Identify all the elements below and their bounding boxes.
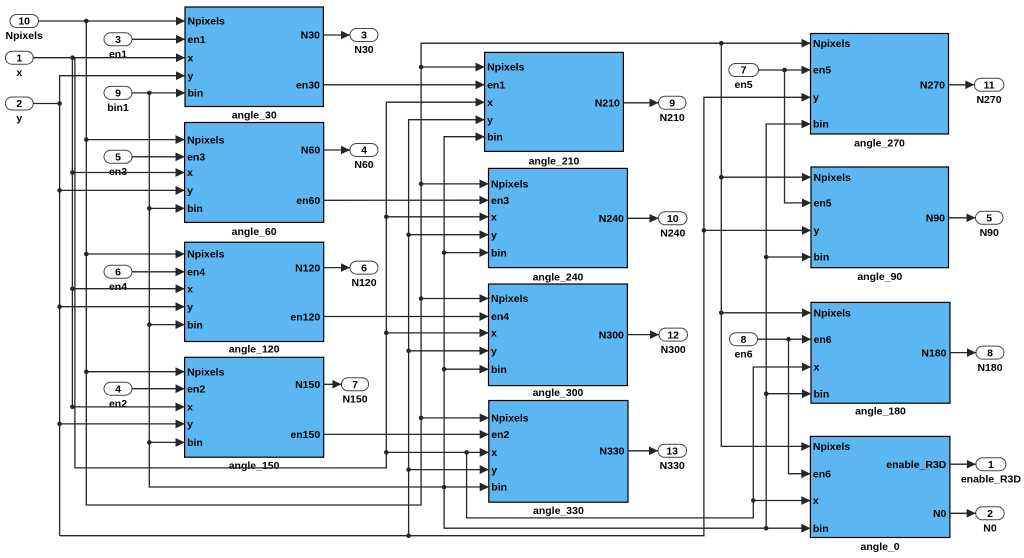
svg-text:bin: bin (187, 319, 203, 331)
svg-text:y: y (187, 301, 193, 313)
wire y branch angle_90 (702, 226, 811, 235)
svg-text:1: 1 (988, 459, 994, 471)
wire bin vertical middle column (442, 132, 485, 489)
wire N60 out (324, 146, 350, 155)
wire bin branch angle_60 (147, 204, 185, 213)
svg-text:N270: N270 (920, 80, 945, 92)
svg-text:N0: N0 (933, 508, 947, 520)
wire y branch angle_330 (406, 465, 488, 474)
wire y branch angle_120 (57, 302, 184, 311)
subsystem block angle_300 (480, 284, 628, 399)
wire Npixels: port 10 to angle_30 and vertical bus (39, 17, 811, 505)
svg-text:9: 9 (115, 88, 121, 100)
wire bin: port 9 to angle_30 and vertical (132, 89, 489, 492)
subsystem block angle_90 (802, 167, 949, 283)
wire enable_R3D out (950, 460, 976, 469)
svg-text:Npixels: Npixels (491, 179, 529, 191)
svg-text:4: 4 (361, 145, 367, 157)
svg-text:x: x (187, 167, 193, 179)
svg-text:angle_210: angle_210 (529, 156, 580, 168)
svg-text:enable_R3D: enable_R3D (886, 459, 947, 471)
svg-text:N150: N150 (295, 379, 320, 391)
svg-text:3: 3 (115, 34, 121, 46)
wire x: port 1 to angle_30 and verticals (33, 53, 484, 468)
outport 8 N180 (976, 346, 1004, 374)
svg-text:x: x (188, 52, 194, 64)
svg-text:x: x (187, 402, 193, 414)
svg-text:N330: N330 (599, 446, 624, 458)
svg-text:angle_120: angle_120 (229, 344, 280, 356)
wire bin right bus to angle_0 (444, 120, 810, 533)
svg-text:bin: bin (491, 482, 507, 494)
wire Npixels branch angle_60 (84, 135, 185, 144)
svg-text:N240: N240 (599, 213, 624, 225)
svg-text:N300: N300 (599, 329, 624, 341)
inport 6 en4 (104, 265, 132, 293)
wire N180 out (950, 348, 976, 357)
svg-text:en5: en5 (813, 65, 831, 77)
svg-text:bin: bin (813, 523, 829, 535)
wire x branch angle_120 (70, 284, 185, 293)
svg-text:en2: en2 (109, 398, 127, 410)
inport 2 y (5, 97, 33, 125)
outport 1 enable_R3D (961, 458, 1022, 486)
svg-text:angle_330: angle_330 (533, 505, 584, 517)
svg-text:en6: en6 (734, 348, 752, 360)
wire Npixels branch angle_330 (419, 414, 489, 423)
svg-text:N330: N330 (660, 460, 685, 472)
wire en150 to angle_330 en2 (324, 430, 489, 439)
wire N150 out (324, 380, 342, 389)
svg-text:en4: en4 (109, 281, 127, 293)
outport 2 N0 (976, 507, 1005, 535)
svg-text:Npixels: Npixels (188, 16, 226, 28)
wire en6: port 8 to angle_180 and angle_0 (758, 335, 812, 478)
svg-text:10: 10 (667, 213, 679, 225)
svg-text:8: 8 (741, 334, 747, 346)
svg-text:en2: en2 (187, 383, 205, 395)
svg-text:8: 8 (987, 347, 993, 359)
svg-text:4: 4 (115, 383, 121, 395)
svg-text:6: 6 (361, 262, 367, 274)
outport 5 N90 (976, 211, 1004, 239)
svg-text:12: 12 (667, 329, 679, 341)
subsystem block angle_270 (802, 34, 949, 150)
wire Npixels branch angle_210 (419, 63, 485, 72)
svg-text:5: 5 (986, 213, 992, 225)
inport 4 en2 (104, 382, 132, 410)
outport 12 N300 (659, 328, 688, 356)
wire en5: port 7 to angle_270 and angle_90 (758, 66, 811, 208)
svg-text:enable_R3D: enable_R3D (961, 473, 1022, 485)
wire Npixels branch angle_240 (419, 180, 489, 189)
wire x branch angle_0 (751, 496, 810, 505)
wire en1: port 3 to angle_30 (132, 35, 185, 44)
wire Npixels branch angle_120 (84, 250, 185, 259)
svg-text:Npixels: Npixels (814, 172, 852, 184)
wire x branch angle_60 (70, 168, 185, 177)
svg-text:x: x (814, 362, 820, 374)
wire y branch angle_240 (406, 230, 488, 239)
svg-text:bin: bin (188, 88, 204, 100)
svg-text:y: y (814, 225, 820, 237)
wire en4: port 6 to angle_120 (132, 268, 185, 277)
outport 11 N270 (974, 78, 1004, 106)
wire x branch angle_240 (384, 213, 489, 222)
svg-text:N150: N150 (342, 394, 367, 406)
wire N330 out (628, 447, 658, 456)
svg-text:N240: N240 (660, 228, 685, 240)
inport 1 x (5, 51, 33, 79)
svg-text:y: y (187, 419, 193, 431)
wire Npixels right vertical to angle_0 (719, 41, 810, 451)
svg-text:1: 1 (16, 52, 22, 64)
svg-text:y: y (188, 70, 194, 82)
wire N270 out (949, 81, 975, 90)
svg-text:9: 9 (669, 98, 675, 110)
svg-text:bin: bin (814, 388, 830, 400)
svg-text:x: x (491, 447, 497, 459)
svg-text:en1: en1 (487, 80, 505, 92)
wire N120 out (324, 263, 350, 272)
outport 7 N150 (341, 378, 368, 406)
svg-text:N60: N60 (354, 159, 373, 171)
svg-text:en6: en6 (814, 334, 832, 346)
wire Npixels branch angle_180 (719, 309, 811, 318)
inport 8 en6 (730, 333, 758, 361)
svg-text:N30: N30 (354, 44, 373, 56)
svg-text:N210: N210 (660, 112, 685, 124)
wire bin branch angle_240 (442, 248, 489, 257)
svg-text:13: 13 (666, 446, 678, 458)
svg-text:angle_150: angle_150 (229, 460, 280, 472)
svg-text:en3: en3 (491, 195, 509, 207)
wire x branch angle_330 and right bus (384, 363, 811, 518)
svg-text:x: x (491, 212, 497, 224)
svg-text:Npixels: Npixels (814, 308, 852, 320)
svg-text:bin: bin (187, 203, 203, 215)
svg-text:en1: en1 (109, 49, 127, 61)
svg-text:N60: N60 (301, 145, 320, 157)
svg-text:N180: N180 (921, 347, 946, 359)
wire Npixels branch angle_90 (719, 173, 811, 182)
svg-text:x: x (813, 495, 819, 507)
svg-text:en120: en120 (290, 311, 320, 323)
svg-text:angle_270: angle_270 (854, 138, 905, 150)
wire bin branch angle_150 (147, 438, 185, 447)
subsystem block angle_120 (176, 242, 324, 356)
wire en2: port 4 to angle_150 (132, 384, 185, 393)
wire Npixels branch angle_150 (84, 367, 185, 376)
svg-text:N300: N300 (661, 344, 686, 356)
svg-text:N90: N90 (926, 213, 945, 225)
svg-text:N0: N0 (983, 523, 997, 535)
svg-text:N30: N30 (301, 30, 320, 42)
svg-text:en4: en4 (491, 311, 509, 323)
svg-text:x: x (16, 67, 22, 79)
subsystem block angle_0 (801, 436, 950, 553)
wire N240 out (627, 214, 658, 223)
svg-text:Npixels: Npixels (491, 413, 529, 425)
svg-text:Npixels: Npixels (491, 293, 529, 305)
svg-text:N120: N120 (351, 277, 376, 289)
svg-text:bin: bin (487, 131, 503, 143)
subsystem block angle_60 (176, 123, 324, 238)
svg-text:angle_300: angle_300 (533, 387, 584, 399)
svg-text:Npixels: Npixels (187, 249, 225, 261)
svg-text:Npixels: Npixels (813, 441, 851, 453)
wire x branch angle_300 (384, 329, 489, 338)
svg-text:bin: bin (813, 119, 829, 131)
svg-text:3: 3 (361, 30, 367, 42)
subsystem block angle_240 (480, 168, 628, 283)
wire N300 out (627, 330, 659, 339)
svg-text:angle_90: angle_90 (857, 271, 902, 283)
wire y: port 2 and vertical (33, 71, 810, 535)
wire bin branch angle_180 (764, 389, 811, 398)
subsystem block angle_150 (176, 357, 324, 472)
svg-text:x: x (491, 328, 497, 340)
wire en60 to angle_240 en3 (324, 196, 489, 205)
wire en30 to angle_210 en1 (323, 81, 484, 90)
inport 7 en5 (729, 64, 759, 92)
svg-text:en1: en1 (188, 34, 206, 46)
wire x branch angle_150 (70, 403, 185, 412)
wire y branch angle_300 (406, 347, 488, 356)
svg-text:11: 11 (983, 80, 994, 92)
svg-text:bin: bin (491, 247, 507, 259)
subsystem block angle_210 (476, 52, 624, 167)
svg-text:angle_0: angle_0 (861, 541, 900, 553)
outport 10 N240 (659, 212, 688, 240)
svg-text:y: y (487, 114, 493, 126)
svg-text:7: 7 (352, 379, 358, 391)
wire N0 out (950, 509, 976, 518)
svg-text:2: 2 (987, 508, 993, 520)
svg-text:Npixels: Npixels (813, 38, 851, 50)
wire Npixels branch angle_300 (419, 294, 489, 303)
svg-text:Npixels: Npixels (187, 134, 225, 146)
outport 6 N120 (350, 261, 378, 289)
svg-text:bin: bin (187, 437, 203, 449)
wire en3: port 5 to angle_60 (132, 153, 185, 162)
svg-text:en5: en5 (814, 198, 832, 210)
wire y branch angle_60 (57, 186, 184, 195)
svg-text:en3: en3 (187, 152, 205, 164)
svg-text:N210: N210 (595, 98, 620, 110)
svg-text:x: x (187, 283, 193, 295)
svg-text:N120: N120 (295, 262, 320, 274)
svg-text:Npixels: Npixels (487, 62, 525, 74)
wire bin branch angle_90 (764, 253, 811, 262)
svg-text:x: x (487, 97, 493, 109)
svg-text:angle_60: angle_60 (232, 226, 277, 238)
svg-text:N90: N90 (980, 227, 999, 239)
inport 10 Npixels (6, 15, 44, 43)
svg-text:2: 2 (16, 98, 22, 110)
wire N210 out (623, 99, 658, 108)
wire en120 to angle_300 en4 (324, 312, 489, 321)
wire y branch angle_150 (57, 420, 184, 429)
svg-text:y: y (491, 229, 497, 241)
svg-text:10: 10 (18, 16, 30, 28)
inport 9 bin1 (104, 86, 132, 114)
outport 9 N210 (659, 96, 687, 124)
svg-text:Npixels: Npixels (6, 30, 44, 42)
wire bin branch angle_300 (442, 365, 489, 374)
wire bin branch angle_120 (147, 320, 185, 329)
svg-text:en150: en150 (290, 429, 320, 441)
svg-text:bin1: bin1 (107, 102, 129, 114)
outport 13 N330 (658, 444, 687, 472)
subsystem block angle_330 (480, 401, 628, 518)
svg-text:y: y (491, 464, 497, 476)
outport 4 N60 (350, 144, 378, 172)
svg-text:N270: N270 (976, 94, 1001, 106)
svg-text:en2: en2 (491, 429, 509, 441)
svg-text:5: 5 (115, 152, 121, 164)
svg-text:en5: en5 (735, 79, 753, 91)
svg-text:bin: bin (814, 252, 830, 264)
inport 3 en1 (104, 33, 132, 61)
svg-text:en4: en4 (187, 267, 205, 279)
svg-text:en30: en30 (296, 80, 320, 92)
svg-text:angle_30: angle_30 (232, 110, 277, 122)
svg-text:bin: bin (491, 364, 507, 376)
wire N90 out (949, 214, 976, 223)
svg-text:angle_240: angle_240 (533, 271, 584, 283)
svg-text:N180: N180 (977, 362, 1002, 374)
inport 5 en3 (104, 150, 132, 178)
svg-text:en60: en60 (296, 195, 320, 207)
svg-text:6: 6 (115, 267, 121, 279)
wire N30 out (323, 31, 350, 40)
subsystem block angle_180 (802, 302, 950, 417)
svg-text:y: y (813, 92, 819, 104)
svg-text:angle_180: angle_180 (855, 406, 906, 418)
subsystem block angle_30 (176, 7, 323, 122)
svg-text:en6: en6 (813, 468, 831, 480)
svg-text:Npixels: Npixels (187, 366, 225, 378)
svg-text:7: 7 (741, 65, 747, 77)
wire y vertical middle column (406, 115, 484, 538)
svg-text:y: y (187, 185, 193, 197)
svg-text:y: y (491, 346, 497, 358)
svg-text:y: y (16, 113, 22, 125)
outport 3 N30 (350, 29, 378, 57)
